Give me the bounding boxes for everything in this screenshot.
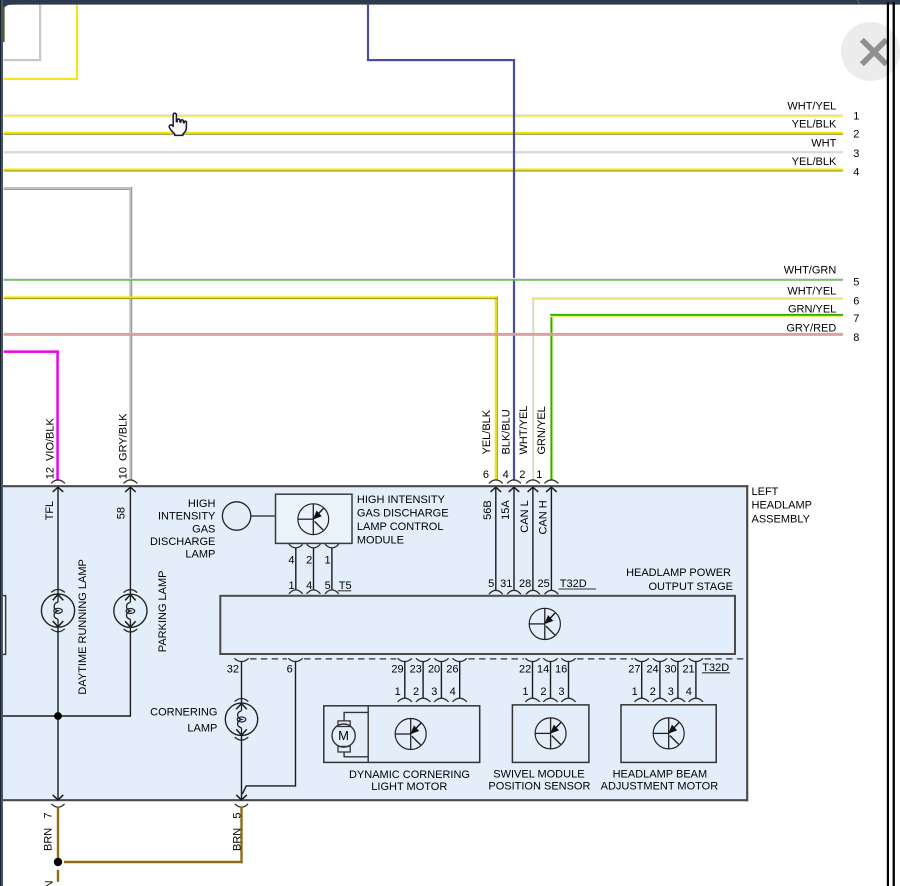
svg-text:1: 1 (632, 686, 638, 698)
svg-text:YEL/BLK: YEL/BLK (792, 156, 837, 168)
svg-text:YEL/BLK: YEL/BLK (792, 119, 837, 131)
svg-text:2: 2 (853, 129, 859, 141)
svg-text:CAN L: CAN L (519, 500, 531, 532)
svg-text:4: 4 (306, 580, 312, 592)
svg-text:GRN/YEL: GRN/YEL (536, 406, 548, 454)
svg-text:6: 6 (483, 469, 489, 481)
svg-text:20: 20 (428, 663, 440, 675)
svg-text:SWIVEL MODULE: SWIVEL MODULE (493, 769, 584, 781)
svg-text:2: 2 (540, 686, 546, 698)
svg-text:BRN 5: BRN 5 (232, 812, 244, 851)
svg-text:WHT/YEL: WHT/YEL (787, 285, 836, 297)
svg-text:56B: 56B (482, 500, 494, 520)
svg-text:29: 29 (391, 663, 403, 675)
svg-text:1: 1 (324, 555, 330, 567)
svg-text:1: 1 (395, 686, 401, 698)
svg-text:4: 4 (686, 686, 692, 698)
svg-text:26: 26 (446, 663, 458, 675)
svg-text:T5: T5 (339, 580, 352, 592)
svg-text:1: 1 (522, 686, 528, 698)
svg-text:YEL/BLK: YEL/BLK (481, 409, 493, 454)
svg-text:2: 2 (306, 555, 312, 567)
svg-text:14: 14 (537, 663, 549, 675)
svg-text:M: M (338, 728, 349, 743)
svg-text:10 GRY/BLK: 10 GRY/BLK (117, 413, 129, 479)
svg-text:OUTPUT STAGE: OUTPUT STAGE (648, 581, 733, 593)
svg-text:27: 27 (628, 663, 640, 675)
svg-text:2: 2 (650, 686, 656, 698)
svg-text:POSITION SENSOR: POSITION SENSOR (488, 781, 590, 793)
svg-text:30: 30 (664, 663, 676, 675)
svg-text:1: 1 (853, 111, 859, 123)
svg-text:BRN 7: BRN 7 (42, 812, 54, 851)
svg-text:WHT/YEL: WHT/YEL (787, 101, 836, 113)
svg-text:HEADLAMP BEAM: HEADLAMP BEAM (613, 769, 708, 781)
svg-text:DAYTIME RUNNING LAMP: DAYTIME RUNNING LAMP (77, 559, 89, 694)
svg-text:4: 4 (503, 469, 509, 481)
svg-text:32: 32 (227, 663, 239, 675)
svg-text:3: 3 (431, 686, 437, 698)
svg-text:2: 2 (519, 469, 525, 481)
svg-text:5: 5 (853, 277, 859, 289)
svg-text:TFL: TFL (44, 501, 56, 521)
svg-text:12 VIO/BLK: 12 VIO/BLK (44, 417, 56, 479)
svg-text:CORNERING: CORNERING (150, 707, 217, 719)
svg-text:3: 3 (853, 148, 859, 160)
svg-text:GAS: GAS (192, 523, 215, 535)
svg-text:22: 22 (519, 663, 531, 675)
svg-text:ASSEMBLY: ASSEMBLY (752, 513, 811, 525)
svg-text:LEFT: LEFT (752, 486, 779, 498)
svg-text:16: 16 (555, 663, 567, 675)
svg-text:7: 7 (853, 313, 859, 325)
svg-text:DYNAMIC CORNERING: DYNAMIC CORNERING (349, 769, 470, 781)
svg-text:25: 25 (538, 578, 550, 590)
svg-text:INTENSITY: INTENSITY (158, 511, 216, 523)
svg-text:6: 6 (853, 295, 859, 307)
svg-text:HIGH: HIGH (188, 498, 216, 510)
svg-text:4: 4 (853, 167, 859, 179)
svg-text:LIGHT MOTOR: LIGHT MOTOR (371, 781, 447, 793)
svg-text:CAN H: CAN H (537, 500, 549, 534)
svg-text:GRY/RED: GRY/RED (786, 323, 836, 335)
svg-text:ADJUSTMENT MOTOR: ADJUSTMENT MOTOR (601, 781, 719, 793)
svg-text:5: 5 (325, 580, 331, 592)
svg-text:28: 28 (519, 578, 531, 590)
svg-text:31: 31 (500, 578, 512, 590)
svg-text:24: 24 (646, 663, 658, 675)
svg-text:WHT/GRN: WHT/GRN (784, 264, 837, 276)
svg-text:15A: 15A (500, 500, 512, 520)
svg-text:PARKING LAMP: PARKING LAMP (157, 570, 169, 652)
svg-text:DISCHARGE: DISCHARGE (150, 536, 215, 548)
svg-text:LAMP: LAMP (185, 549, 215, 561)
svg-text:LAMP CONTROL: LAMP CONTROL (357, 521, 444, 533)
svg-text:3: 3 (668, 686, 674, 698)
svg-text:1: 1 (288, 580, 294, 592)
svg-text:MODULE: MODULE (357, 535, 404, 547)
svg-text:4: 4 (288, 555, 294, 567)
svg-text:23: 23 (410, 663, 422, 675)
svg-text:1: 1 (536, 469, 542, 481)
svg-text:58: 58 (115, 507, 127, 519)
svg-text:T32D: T32D (702, 662, 729, 674)
svg-text:GAS DISCHARGE: GAS DISCHARGE (357, 508, 449, 520)
svg-text:T32D: T32D (560, 578, 587, 590)
svg-text:3: 3 (558, 686, 564, 698)
svg-text:4: 4 (450, 686, 456, 698)
svg-text:5: 5 (488, 578, 494, 590)
svg-text:WHT: WHT (811, 138, 836, 150)
svg-text:GRN/YEL: GRN/YEL (788, 304, 836, 316)
svg-text:HIGH INTENSITY: HIGH INTENSITY (357, 494, 446, 506)
svg-text:HEADLAMP: HEADLAMP (752, 500, 813, 512)
svg-text:LAMP: LAMP (187, 723, 217, 735)
svg-text:8: 8 (853, 332, 859, 344)
svg-text:BRN: BRN (44, 880, 56, 886)
svg-text:HEADLAMP POWER: HEADLAMP POWER (626, 567, 731, 579)
svg-text:WHT/YEL: WHT/YEL (518, 406, 530, 455)
svg-text:6: 6 (287, 663, 293, 675)
svg-text:21: 21 (682, 663, 694, 675)
svg-text:BLK/BLU: BLK/BLU (500, 409, 512, 454)
svg-text:2: 2 (413, 686, 419, 698)
